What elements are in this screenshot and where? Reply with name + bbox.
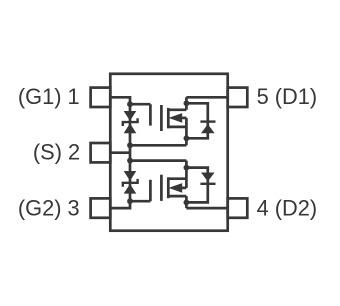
svg-text:(S) 2: (S) 2: [33, 140, 80, 165]
package body outline: [110, 74, 227, 231]
wire D1 to pin 5: [186, 96, 227, 99]
junction dot Q1 source: [184, 135, 190, 141]
MOSFET Q2 body line: [181, 187, 186, 190]
pin 1 pad: [91, 88, 111, 107]
wire body diode D2 anode to source: [186, 168, 207, 183]
wire Q1 drain to body diode: [186, 103, 207, 121]
zener Z1 lower diode triangle: [124, 123, 137, 133]
wire S from pin 2 to center node: [109, 151, 130, 154]
body diode D1 cathode bar: [200, 120, 215, 122]
MOSFET Q1 drain lead: [168, 108, 186, 111]
wire G2 from pin 3 to node: [109, 201, 130, 208]
wire Q2 drain to body diode: [186, 184, 207, 202]
wire Q1 drain vertical: [185, 97, 188, 110]
zener Z1 cathode bar: [123, 118, 138, 126]
pin 4 pad: [228, 198, 248, 217]
MOSFET Q1 gate bar: [160, 105, 163, 131]
MOSFET Q2 gate bar: [160, 175, 163, 201]
wire Q2 drain vertical: [185, 196, 188, 208]
body diode D1 triangle: [201, 124, 215, 133]
pin 3 pad: [91, 198, 111, 217]
zener Z2 cathode bar: [123, 179, 138, 187]
body diode D2 triangle: [201, 173, 215, 182]
zener Z2 lower diode triangle: [124, 184, 137, 194]
center vertical net wire: [129, 104, 132, 201]
wire G2 node to gate stub: [130, 200, 150, 203]
svg-text:4 (D2): 4 (D2): [257, 195, 318, 220]
wire Q1 source rail: [130, 144, 186, 147]
MOSFET Q1 source lead: [168, 126, 186, 129]
wire G1 from pin 1 to node: [109, 97, 130, 104]
junction dot G2 node: [127, 198, 133, 204]
gate lead stub Q2: [149, 180, 152, 201]
svg-text:5 (D1): 5 (D1): [257, 84, 318, 109]
pin 5 pad: [228, 88, 248, 107]
MOSFET Q1 channel bar: [167, 108, 170, 128]
wire G1 node to gate stub: [130, 103, 150, 106]
svg-text:(G1) 1: (G1) 1: [18, 84, 80, 109]
zener Z2 upper diode triangle: [124, 171, 137, 181]
MOSFET Q1 body line: [181, 117, 186, 120]
gate lead stub Q1: [149, 104, 152, 125]
junction dot source rail A: [127, 142, 133, 148]
wire Q2 source vertical: [185, 161, 188, 188]
wire Q2 source rail: [130, 159, 186, 162]
svg-text:(G2) 3: (G2) 3: [18, 195, 80, 220]
zener Z1 upper diode triangle: [124, 111, 137, 121]
junction dot source rail B: [127, 158, 133, 164]
junction dot Q1 drain: [184, 100, 190, 106]
MOSFET Q2 body arrow: [169, 183, 183, 193]
wire Q1 source vertical: [185, 118, 188, 145]
wire D2 to pin 4: [186, 207, 227, 210]
wire body diode D1 anode to source: [186, 123, 207, 139]
MOSFET Q1 body arrow: [169, 113, 183, 123]
body diode D2 cathode bar: [200, 183, 215, 185]
MOSFET Q2 drain lead: [168, 195, 186, 198]
MOSFET Q2 source lead: [168, 177, 186, 180]
junction dot Q2 drain: [184, 200, 190, 206]
pin 2 pad: [91, 143, 111, 162]
junction dot Q2 source: [184, 165, 190, 171]
junction dot G1 node: [127, 101, 133, 107]
MOSFET Q2 channel bar: [167, 177, 170, 198]
